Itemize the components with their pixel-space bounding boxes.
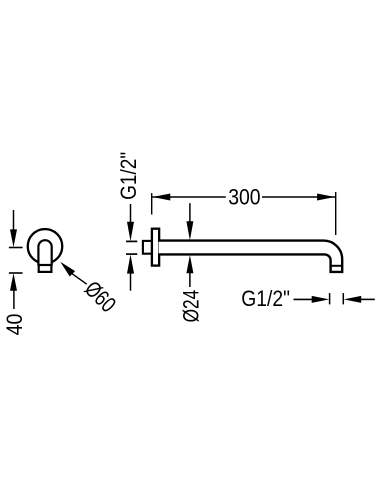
svg-text:40: 40 xyxy=(2,314,27,336)
svg-text:300: 300 xyxy=(228,184,260,209)
svg-text:G1/2": G1/2" xyxy=(241,286,290,311)
svg-text:G1/2": G1/2" xyxy=(116,152,141,200)
svg-text:Ø24: Ø24 xyxy=(178,290,203,323)
